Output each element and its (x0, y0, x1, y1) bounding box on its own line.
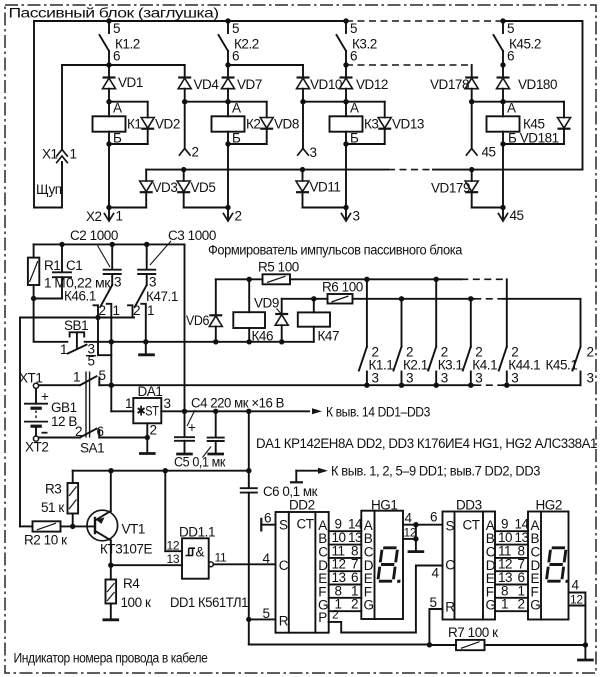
wire DD2 P to DD3 C stair (329, 566, 443, 633)
svg-text:R4: R4 (123, 576, 140, 591)
svg-text:К46.1: К46.1 (64, 289, 96, 304)
svg-text:VD12: VD12 (356, 77, 388, 92)
wire RC top bus (34, 243, 185, 245)
svg-text:2: 2 (133, 303, 140, 318)
capacitor C1 (52, 244, 111, 298)
contact K47.1 (128, 275, 178, 342)
diode VD7 (222, 65, 262, 102)
pin socket 2 (179, 149, 190, 156)
svg-text:DD1.1: DD1.1 (179, 525, 215, 540)
diode VD1 (103, 65, 143, 102)
digit HG2 (546, 548, 571, 583)
switch SA1 pole2 (39, 424, 148, 456)
wire R1-C1 bottom (34, 298, 62, 300)
svg-text:А: А (113, 101, 122, 116)
svg-text:5: 5 (99, 368, 106, 383)
node bus-K45.2 (500, 18, 505, 23)
pin socket 3 (298, 149, 309, 156)
svg-text:1: 1 (147, 303, 154, 318)
diode VD9 (254, 296, 288, 342)
node VT1 collector (108, 563, 113, 568)
svg-text:5: 5 (88, 354, 95, 369)
svg-text:S: S (279, 518, 288, 533)
svg-text:R6 100: R6 100 (322, 280, 363, 295)
diode VD181 (503, 102, 571, 146)
wire top bus solid left (34, 20, 346, 22)
wires DD2-HG1 segment lines (329, 531, 362, 611)
display HG1 (361, 498, 403, 620)
node K47 top (311, 296, 316, 301)
relay K3 (330, 101, 379, 146)
wire A-link VD178 to K45 (472, 101, 503, 103)
svg-text:2: 2 (235, 209, 242, 224)
svg-text:11: 11 (215, 551, 227, 565)
resistor R7 (429, 625, 585, 650)
switch SA1 pole1 (39, 368, 112, 385)
node bus-VD5 (181, 167, 186, 172)
diode VD3 (109, 170, 177, 208)
arrow to gnd pins (290, 464, 540, 483)
relay K1 (93, 101, 142, 146)
wire probe left drop (34, 21, 62, 208)
contact K1.1 (359, 279, 393, 385)
svg-text:VD8: VD8 (274, 117, 299, 132)
logic supply rail (73, 470, 249, 472)
node rail K1.1 (364, 383, 369, 388)
svg-text:А: А (232, 101, 241, 116)
diode VD4 (178, 65, 219, 102)
svg-text:45: 45 (510, 208, 524, 223)
svg-text:4: 4 (263, 551, 271, 566)
svg-text:4: 4 (572, 578, 580, 593)
svg-text:VT1: VT1 (122, 522, 145, 537)
pin numbers DD2-HG1 (332, 517, 364, 612)
svg-text:КТ3107Е: КТ3107Е (100, 542, 152, 557)
svg-text:GB1: GB1 (51, 400, 77, 415)
wire R1 to bottom bus (34, 299, 68, 342)
svg-text:Индикатор номера провода в каб: Индикатор номера провода в кабеле (14, 651, 208, 666)
svg-text:К46: К46 (252, 329, 274, 344)
svg-text:4: 4 (405, 511, 413, 526)
svg-text:VD6: VD6 (186, 313, 209, 328)
node DA1 pin2 (145, 435, 150, 440)
node rail K3.1 (434, 383, 439, 388)
node C3 top (144, 242, 149, 247)
svg-text:VD5: VD5 (191, 180, 216, 195)
svg-text:XT1: XT1 (19, 371, 42, 386)
svg-text:R2 10 к: R2 10 к (24, 533, 67, 548)
wire SB1 common drop (110, 342, 112, 385)
capacitor C4 (174, 396, 284, 455)
svg-text:К2: К2 (246, 117, 260, 132)
svg-text:12: 12 (167, 539, 180, 553)
wire K1 down (108, 144, 110, 208)
resistor R6 (282, 280, 363, 304)
svg-text:3: 3 (114, 275, 121, 290)
svg-text:А: А (350, 101, 359, 116)
svg-text:R7 100 к: R7 100 к (448, 625, 498, 640)
terminal X2 pin45 (498, 205, 523, 223)
connector X1 (42, 65, 77, 163)
wire C6 down (248, 493, 250, 645)
wire HG2 pin4 (569, 578, 586, 646)
svg-text:2: 2 (150, 423, 157, 438)
svg-text:2: 2 (192, 145, 199, 160)
svg-text:5: 5 (507, 21, 514, 36)
diode VD179 (431, 170, 503, 208)
svg-text:DD1 К561ТЛ1: DD1 К561ТЛ1 (170, 595, 248, 610)
terminal X2 pin3 (341, 205, 359, 224)
svg-text:1: 1 (113, 303, 120, 318)
svg-text:X2: X2 (86, 209, 102, 224)
node 6-K1 (106, 62, 111, 67)
svg-text:X1: X1 (42, 147, 58, 162)
node VD4 foot (182, 99, 187, 104)
svg-text:C1: C1 (66, 258, 82, 273)
svg-text:C2 1000: C2 1000 (70, 228, 118, 243)
counter DD3 (443, 498, 496, 620)
node R7 left (427, 642, 432, 647)
wire button feed line (20, 317, 134, 319)
svg-text:К выв. 1, 2, 5–9 DD1; выв.7 DD: К выв. 1, 2, 5–9 DD1; выв.7 DD2, DD3 (331, 464, 540, 479)
ground DA1 (139, 438, 156, 454)
wire reset net bottom (249, 644, 430, 646)
svg-text:3: 3 (441, 371, 448, 386)
wire A-link VD10 to K3 (303, 101, 346, 103)
wire SB1 link down (98, 318, 111, 356)
wire lower diode bus solid (146, 169, 388, 171)
svg-text:G: G (364, 598, 374, 613)
contact K3.2 (337, 21, 377, 65)
svg-text:2: 2 (75, 424, 82, 439)
wire probe pin 45 (471, 102, 473, 148)
svg-text:CT: CT (297, 517, 314, 532)
resistor R3 (41, 471, 78, 527)
node A2 (225, 99, 230, 104)
svg-text:3: 3 (310, 145, 317, 160)
svg-text:VD7: VD7 (237, 77, 262, 92)
node bus-VD11 (300, 167, 305, 172)
node K46 top (247, 277, 252, 282)
gate DD1.1 (165, 471, 275, 579)
svg-text:1: 1 (116, 209, 123, 224)
pin DD2 S (261, 511, 275, 532)
svg-text:VD1: VD1 (118, 75, 143, 90)
node VD178 foot (469, 99, 474, 104)
node bus-VD179 (469, 167, 474, 172)
node VD9 bottom (279, 339, 284, 344)
svg-text:R: R (445, 600, 455, 615)
wire HG2 pin12 (569, 593, 586, 607)
diode VD11 (296, 170, 346, 208)
pin DD2 R (249, 606, 276, 621)
svg-text:3: 3 (406, 371, 413, 386)
svg-text:1: 1 (70, 147, 77, 162)
capacitor C2 (70, 228, 122, 285)
svg-text:5: 5 (113, 21, 120, 36)
node bus1 K1.1 (364, 277, 369, 282)
node A3 (343, 99, 348, 104)
pin DD3 R (429, 595, 442, 645)
wire 6-line dashed K3 to VD178 (346, 64, 472, 66)
svg-text:VD3: VD3 (153, 180, 178, 195)
node out rail C6 (246, 409, 251, 414)
relay K2 (212, 101, 261, 146)
node rail SA1 (109, 383, 114, 388)
ground HG2 (577, 645, 594, 660)
supply rail v-plus (111, 384, 474, 386)
svg-text:К45: К45 (523, 117, 545, 132)
node SB1 right (109, 339, 114, 344)
svg-text:VD11: VD11 (310, 180, 341, 195)
svg-text:R5 100: R5 100 (258, 260, 299, 275)
wire lower diode bus right (433, 169, 583, 171)
svg-text:1: 1 (501, 597, 508, 612)
node ground K47.1 (143, 339, 148, 344)
svg-text:C4 220 мк ×16 В: C4 220 мк ×16 В (191, 396, 284, 411)
node bus-K3.2 (343, 18, 348, 23)
node VD6 bottom (213, 339, 218, 344)
svg-text:6: 6 (507, 49, 514, 64)
svg-text:51 к: 51 к (41, 500, 64, 515)
node bus1 K3.1 (434, 277, 439, 282)
node C6-R net (246, 617, 251, 622)
svg-text:5: 5 (350, 21, 357, 36)
svg-text:XT2: XT2 (25, 440, 48, 455)
wire contact bus1 (290, 278, 461, 280)
contact K2.1 (394, 299, 428, 386)
svg-text:C3 1000: C3 1000 (168, 228, 216, 243)
svg-text:6: 6 (97, 424, 104, 439)
node HG2 gnd (583, 642, 588, 647)
wire 6-line cell1 (62, 64, 185, 66)
resistor R5 (216, 260, 299, 285)
node HG1 pin4 (413, 522, 418, 527)
svg-text:5: 5 (263, 606, 270, 621)
svg-text:3: 3 (164, 396, 171, 411)
svg-text:C5 0,1 мк: C5 0,1 мк (174, 455, 225, 470)
node rail K44.1 (504, 383, 509, 388)
svg-text:К выв. 14 DD1–DD3: К выв. 14 DD1–DD3 (326, 405, 430, 420)
contact K4.1 (463, 299, 497, 386)
node 6-K3 (343, 62, 348, 67)
node R1 bottom (31, 296, 36, 301)
svg-text:VD10: VD10 (310, 77, 342, 92)
node 6-K2 (225, 62, 230, 67)
svg-text:VD180: VD180 (518, 77, 557, 92)
diode VD8 (228, 102, 299, 144)
node rail K4.1 (468, 383, 473, 388)
node K46 bottom (247, 339, 252, 344)
node out rail C3drop (182, 409, 187, 414)
svg-text:1: 1 (60, 342, 67, 357)
contact K45.1 (546, 345, 594, 386)
relay K45 (487, 101, 545, 145)
contact K46.1 (64, 275, 121, 342)
wire A-link VD4 to K2 (185, 101, 228, 103)
diode VD180 (497, 65, 558, 102)
svg-text:VD178: VD178 (430, 77, 469, 92)
wire HG1 pin12 (403, 538, 416, 540)
svg-text:P: P (318, 610, 327, 625)
svg-text:К1: К1 (127, 117, 141, 132)
terminal XT2 (25, 436, 48, 455)
wire probe pin 2 (184, 102, 186, 148)
ground shaper (138, 342, 155, 355)
svg-text:DD3: DD3 (456, 498, 482, 513)
svg-text:VD9: VD9 (254, 296, 279, 311)
svg-text:SB1: SB1 (64, 318, 88, 333)
svg-text:C: C (445, 558, 455, 573)
battery GB1 (24, 389, 77, 436)
resistor R4 (103, 565, 151, 620)
node A1 (106, 99, 111, 104)
node VD10 foot (300, 99, 305, 104)
node C1 top (59, 242, 64, 247)
svg-text:К47: К47 (318, 329, 340, 344)
terminal X2 pin1 (86, 205, 123, 224)
supply rail v-plus right (503, 384, 581, 386)
svg-text:VD13: VD13 (392, 117, 424, 132)
svg-text:13: 13 (167, 552, 180, 566)
svg-text:К3: К3 (364, 117, 378, 132)
node C2 top (110, 242, 115, 247)
regulator DA1 (111, 384, 309, 438)
relay K47 (298, 299, 339, 344)
wire K45 down (502, 144, 504, 208)
svg-text:+: + (41, 389, 49, 404)
svg-text:5: 5 (430, 595, 437, 610)
wire vcc drop to logic (248, 411, 250, 487)
node out rail C5 (213, 409, 218, 414)
svg-text:SA1: SA1 (80, 441, 104, 456)
svg-text:DA1 КР142ЕН8А DD2, DD3 К176ИЕ: DA1 КР142ЕН8А DD2, DD3 К176ИЕ4 HG1, HG2 … (256, 436, 597, 451)
node B1 (106, 141, 111, 146)
svg-text:3: 3 (511, 371, 518, 386)
svg-text:А: А (507, 101, 516, 116)
ground HG1 (408, 525, 425, 552)
svg-text:3: 3 (149, 275, 156, 290)
svg-text:CT: CT (463, 518, 480, 533)
diode VD178 (430, 65, 478, 102)
capacitor C5 (174, 411, 225, 469)
wire top bus dashed middle (346, 20, 503, 22)
svg-text:6: 6 (232, 49, 239, 64)
svg-text:3: 3 (587, 371, 594, 386)
svg-text:3: 3 (475, 371, 482, 386)
node bus2 K4.1 (468, 296, 473, 301)
svg-text:6: 6 (430, 510, 437, 525)
svg-text:12 В: 12 В (51, 414, 77, 429)
svg-text:2: 2 (351, 597, 358, 612)
terminal X2 pin2 (223, 205, 241, 224)
wire 6-line cell2 (228, 64, 303, 66)
wires DD3-HG2 segment lines (495, 531, 528, 611)
terminal XT1 (19, 371, 42, 389)
svg-text:Щуп: Щуп (36, 182, 62, 197)
contact K3.1 (428, 279, 462, 385)
wire collector to DD1 (111, 564, 182, 566)
svg-text:R: R (279, 614, 289, 629)
node logic rail VT1 (108, 468, 113, 473)
pin numbers DD3-HG2 (498, 517, 530, 612)
wire contact bus2 dashed (474, 298, 503, 300)
svg-text:1: 1 (73, 370, 80, 385)
wire common bus mid (85, 341, 314, 343)
svg-text:6: 6 (264, 511, 271, 526)
diode VD6 (186, 279, 222, 342)
contact K44.1 (499, 279, 540, 385)
svg-text:VD4: VD4 (194, 77, 220, 92)
wire lower diode bus dashed (388, 169, 433, 171)
diode VD5 (177, 170, 228, 208)
wire left battery drop (19, 318, 21, 527)
svg-text:DD2: DD2 (289, 498, 315, 513)
diode VD12 (340, 65, 388, 102)
node B2 (225, 141, 230, 146)
svg-text:4: 4 (432, 566, 440, 581)
counter DD2 (276, 498, 329, 633)
svg-text:R1: R1 (44, 258, 60, 273)
node 6-K45 (500, 62, 505, 67)
supply rail v-plus dashed (474, 384, 503, 386)
wire K2 down (227, 144, 229, 208)
svg-text:2: 2 (332, 608, 339, 622)
relay K46 (233, 279, 273, 343)
contact K45.2 (494, 21, 541, 65)
diode VD13 (346, 102, 424, 144)
pin socket 45 (466, 149, 477, 156)
svg-text:3: 3 (353, 209, 360, 224)
svg-text:DA1: DA1 (138, 384, 163, 399)
svg-text:2: 2 (518, 597, 525, 612)
capacitor C3 (137, 228, 216, 285)
svg-text:C: C (279, 558, 289, 573)
wire contact bus2 right (503, 299, 581, 347)
svg-text:Пассивный блок (заглушка): Пассивный блок (заглушка) (9, 6, 219, 21)
resistor R1 (28, 244, 65, 298)
svg-text:VD179: VD179 (431, 181, 470, 196)
svg-text:100 к: 100 к (121, 595, 151, 610)
contact K2.2 (219, 21, 259, 65)
svg-text:VD2: VD2 (155, 117, 180, 132)
diode VD10 (297, 65, 342, 102)
node HG1 pin12 (413, 536, 418, 541)
capacitor C6 (240, 484, 318, 499)
transistor VT1 (87, 471, 152, 566)
svg-text:3: 3 (372, 371, 379, 386)
diode VD2 (109, 102, 180, 144)
node K46.1 pin2 (95, 315, 100, 320)
svg-text:5: 5 (232, 21, 239, 36)
svg-text:К45.1: К45.1 (546, 358, 578, 373)
svg-text:45: 45 (482, 145, 496, 160)
wire contact bus1 dashed (461, 278, 507, 280)
switch SA1 link (86, 372, 90, 438)
node B45 (500, 141, 505, 146)
node bus2 K2.1 (399, 296, 404, 301)
svg-text:1: 1 (125, 396, 132, 411)
svg-text:HG2: HG2 (536, 498, 562, 513)
node logic rail C6 (246, 468, 251, 473)
svg-text:12: 12 (570, 593, 583, 607)
node A45 (500, 99, 505, 104)
wire K3 down (345, 144, 347, 208)
wire shaper right drop (184, 244, 186, 411)
display HG2 (528, 498, 569, 620)
node bus-K2.2 (225, 18, 230, 23)
node bus-K1.2 (106, 18, 111, 23)
